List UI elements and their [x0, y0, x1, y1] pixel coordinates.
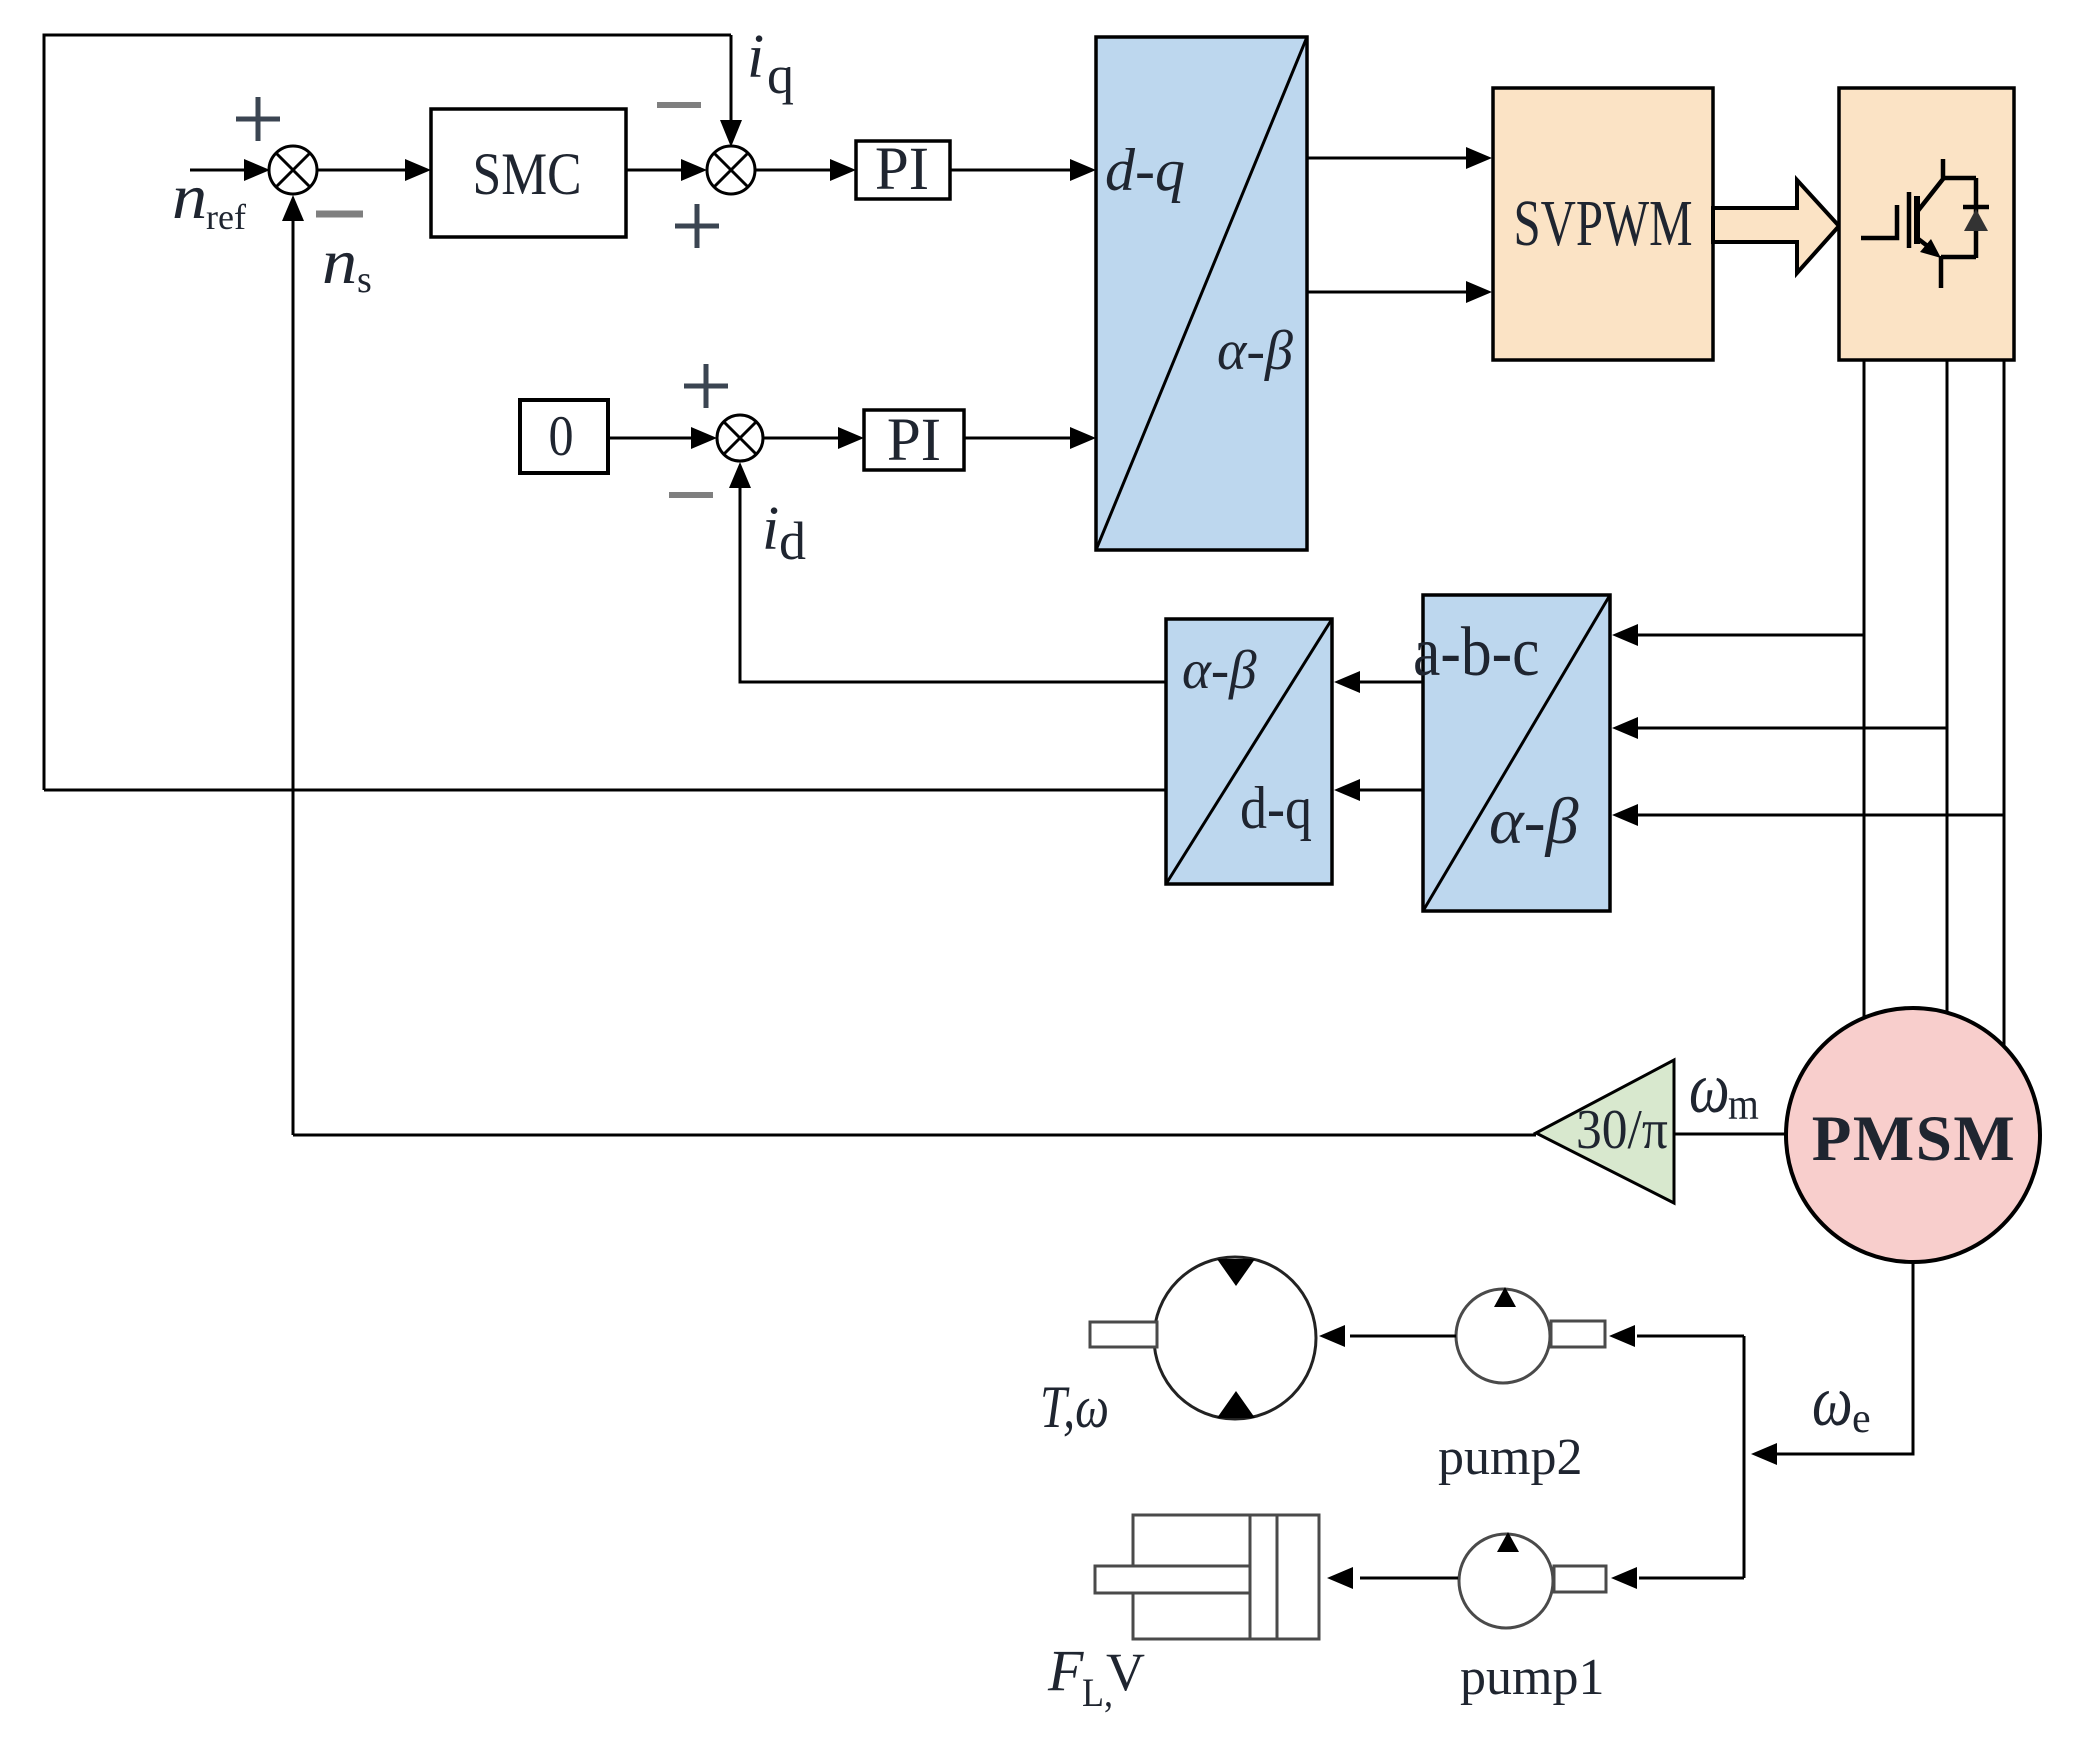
- wire beta output a-b-c block to alpha-beta/d-q block: [1360, 789, 1423, 792]
- block PI q-axis: [856, 141, 950, 199]
- plus sign junction 2: [675, 204, 719, 248]
- wire alpha output a-b-c block to alpha-beta/d-q block: [1360, 681, 1423, 684]
- svg-text:PI: PI: [887, 407, 941, 474]
- svg-text:pump1: pump1: [1460, 1649, 1604, 1706]
- svg-text:PMSM: PMSM: [1812, 1103, 2017, 1175]
- block alpha-beta to d-q transform: [1166, 619, 1332, 884]
- svg-text:30/π: 30/π: [1576, 1098, 1668, 1160]
- IGBT symbol inside inverter: [1861, 159, 1989, 288]
- wire to pump2: [1637, 1335, 1744, 1338]
- svg-text:F: F: [1047, 1638, 1084, 1703]
- svg-text:SVPWM: SVPWM: [1513, 186, 1692, 260]
- svg-text:SMC: SMC: [473, 141, 582, 207]
- svg-text:n: n: [172, 161, 207, 232]
- wire current sense c to a-b-c block: [1638, 814, 2004, 817]
- block a-b-c to alpha-beta transform: [1413, 595, 1610, 911]
- svg-text:d-q: d-q: [1105, 137, 1185, 203]
- wire d-q block output 2 to SVPWM: [1307, 291, 1467, 294]
- svg-text:T,ω: T,ω: [1040, 1374, 1109, 1440]
- wire 0 to junction 3: [608, 437, 692, 440]
- wire pump1 to cylinder: [1360, 1577, 1458, 1580]
- svg-text:i: i: [747, 23, 764, 91]
- plus sign junction 1: [236, 97, 280, 141]
- svg-text:ref: ref: [206, 197, 246, 237]
- block SVPWM: [1493, 88, 1713, 360]
- svg-text:n: n: [322, 226, 357, 297]
- summing junction 3: [717, 415, 763, 461]
- PMSM motor circle: [1786, 1008, 2040, 1262]
- wire SMC to junction 2: [626, 169, 682, 172]
- wire junction 2 to PI (q axis): [755, 169, 831, 172]
- pump1 symbol: [1459, 1534, 1606, 1628]
- svg-text:ω: ω: [1812, 1362, 1853, 1442]
- wire 30/pi to PMSM: [1674, 1133, 1787, 1136]
- wire phase line c from inverter to PMSM: [2003, 360, 2006, 1047]
- svg-text:e: e: [1852, 1396, 1871, 1442]
- wire current sense a to a-b-c block: [1638, 634, 1864, 637]
- wire junction 3 to PI (d axis): [763, 437, 839, 440]
- block inverter: [1839, 88, 2014, 360]
- wire omega e from PMSM down and left: [1777, 1262, 1913, 1454]
- wire PI to d-q block (d input): [964, 437, 1071, 440]
- svg-text:a-b-c: a-b-c: [1413, 613, 1539, 691]
- svg-text:0: 0: [548, 404, 573, 468]
- summing junction 1: [269, 146, 317, 194]
- hydraulic cylinder symbol: [1095, 1515, 1319, 1639]
- wire id feedback from alpha-beta/d-q block up into junction 3: [740, 488, 1166, 682]
- summing junction 2: [707, 146, 755, 194]
- svg-text:PI: PI: [875, 136, 929, 203]
- minus sign junction 1: [316, 211, 363, 218]
- wire iq vertical drop into summing junction 2: [730, 35, 733, 122]
- block 0 reference: [520, 400, 608, 473]
- svg-text:V: V: [1106, 1642, 1145, 1702]
- wire PI to d-q block (q input): [950, 169, 1071, 172]
- wire nref input arrow: [190, 169, 246, 172]
- block SMC: [431, 109, 626, 237]
- svg-text:α-β: α-β: [1217, 320, 1293, 382]
- wire current sense b to a-b-c block: [1638, 727, 1947, 730]
- svg-text:m: m: [1728, 1081, 1759, 1129]
- gain block 30/pi triangle: [1536, 1060, 1674, 1203]
- svg-text:s: s: [357, 259, 372, 301]
- svg-text:ω: ω: [1689, 1049, 1730, 1129]
- wire ns feedback horizontal from 30/pi triangle: [293, 1134, 1536, 1137]
- wire to pump1: [1639, 1577, 1744, 1580]
- svg-text:q: q: [767, 45, 794, 105]
- block arrow SVPWM to inverter: [1713, 180, 1839, 273]
- block d-q to alpha-beta transform: [1096, 37, 1307, 550]
- wire d-q block output 1 to SVPWM: [1307, 157, 1467, 160]
- svg-text:α-β: α-β: [1182, 639, 1257, 700]
- IGBT emitter arrowhead: [1920, 239, 1941, 258]
- IGBT diode triangle: [1964, 209, 1988, 231]
- block PI d-axis: [864, 410, 964, 470]
- svg-text:pump2: pump2: [1438, 1429, 1582, 1486]
- svg-text:i: i: [762, 495, 779, 563]
- hydraulic motor symbol: [1090, 1257, 1316, 1419]
- wire ns feedback vertical with up arrow into junction 1: [292, 220, 295, 1135]
- wire distribution vertical to pumps: [1743, 1336, 1746, 1578]
- svg-text:d-q: d-q: [1240, 775, 1312, 841]
- wire phase line b from inverter to PMSM: [1946, 360, 1949, 1014]
- wire iq top feedback loop (left vertical + top horizontal): [44, 35, 731, 790]
- wire iq measured feedback (bottom output to far left): [44, 789, 1166, 792]
- wire phase line a from inverter to PMSM: [1863, 360, 1866, 1019]
- pump2 symbol: [1456, 1289, 1605, 1383]
- minus sign junction 2: [657, 102, 701, 108]
- wire pump2 to hydraulic motor: [1350, 1335, 1456, 1338]
- minus sign junction 3: [669, 492, 713, 498]
- svg-text:α-β: α-β: [1489, 785, 1579, 858]
- plus sign junction 3: [684, 364, 728, 408]
- svg-text:d: d: [779, 511, 806, 571]
- wire junction1 to SMC: [317, 169, 406, 172]
